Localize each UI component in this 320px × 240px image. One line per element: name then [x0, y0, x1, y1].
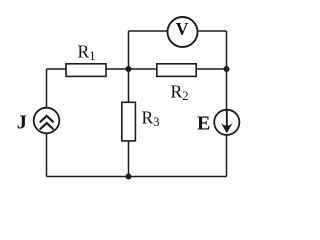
wire voltmeter to top-right corner — [197, 30, 227, 32]
wire left corner to resistor R1 — [47, 68, 67, 70]
wire source E to bottom-right corner — [226, 135, 228, 177]
wire left rail down to source J — [46, 69, 48, 109]
wire top-right corner down to node B — [226, 31, 228, 69]
resistor R2 — [157, 64, 196, 77]
svg-text:V: V — [176, 19, 189, 39]
node C junction dot — [126, 174, 132, 180]
svg-text:J: J — [17, 111, 27, 133]
wire top horizontal left to voltmeter — [129, 30, 169, 32]
current source J chevron bottom — [40, 123, 54, 130]
wire node A to resistor R2 — [129, 68, 158, 70]
resistor R1 — [66, 64, 106, 77]
source E arrowhead — [221, 123, 233, 133]
svg-text:E: E — [197, 112, 210, 134]
wire resistor R3 down to node C — [128, 141, 130, 177]
wire source J to bottom-left corner — [46, 134, 48, 177]
resistor R3 — [122, 102, 136, 141]
emf source E — [214, 110, 239, 135]
current source J chevron top — [40, 116, 54, 123]
wire node A down to resistor R3 — [128, 69, 130, 103]
wire node A up to top branch — [128, 31, 130, 69]
node A junction dot — [126, 66, 132, 72]
wire node B down to source E — [226, 69, 228, 112]
current source J — [34, 108, 60, 134]
wire resistor R2 to node B — [196, 68, 227, 70]
wire bottom rail — [47, 176, 227, 178]
voltmeter V — [168, 17, 198, 47]
node B junction dot — [224, 66, 230, 72]
source E arrow shaft — [226, 110, 228, 131]
wire resistor R1 to node A — [106, 68, 129, 70]
